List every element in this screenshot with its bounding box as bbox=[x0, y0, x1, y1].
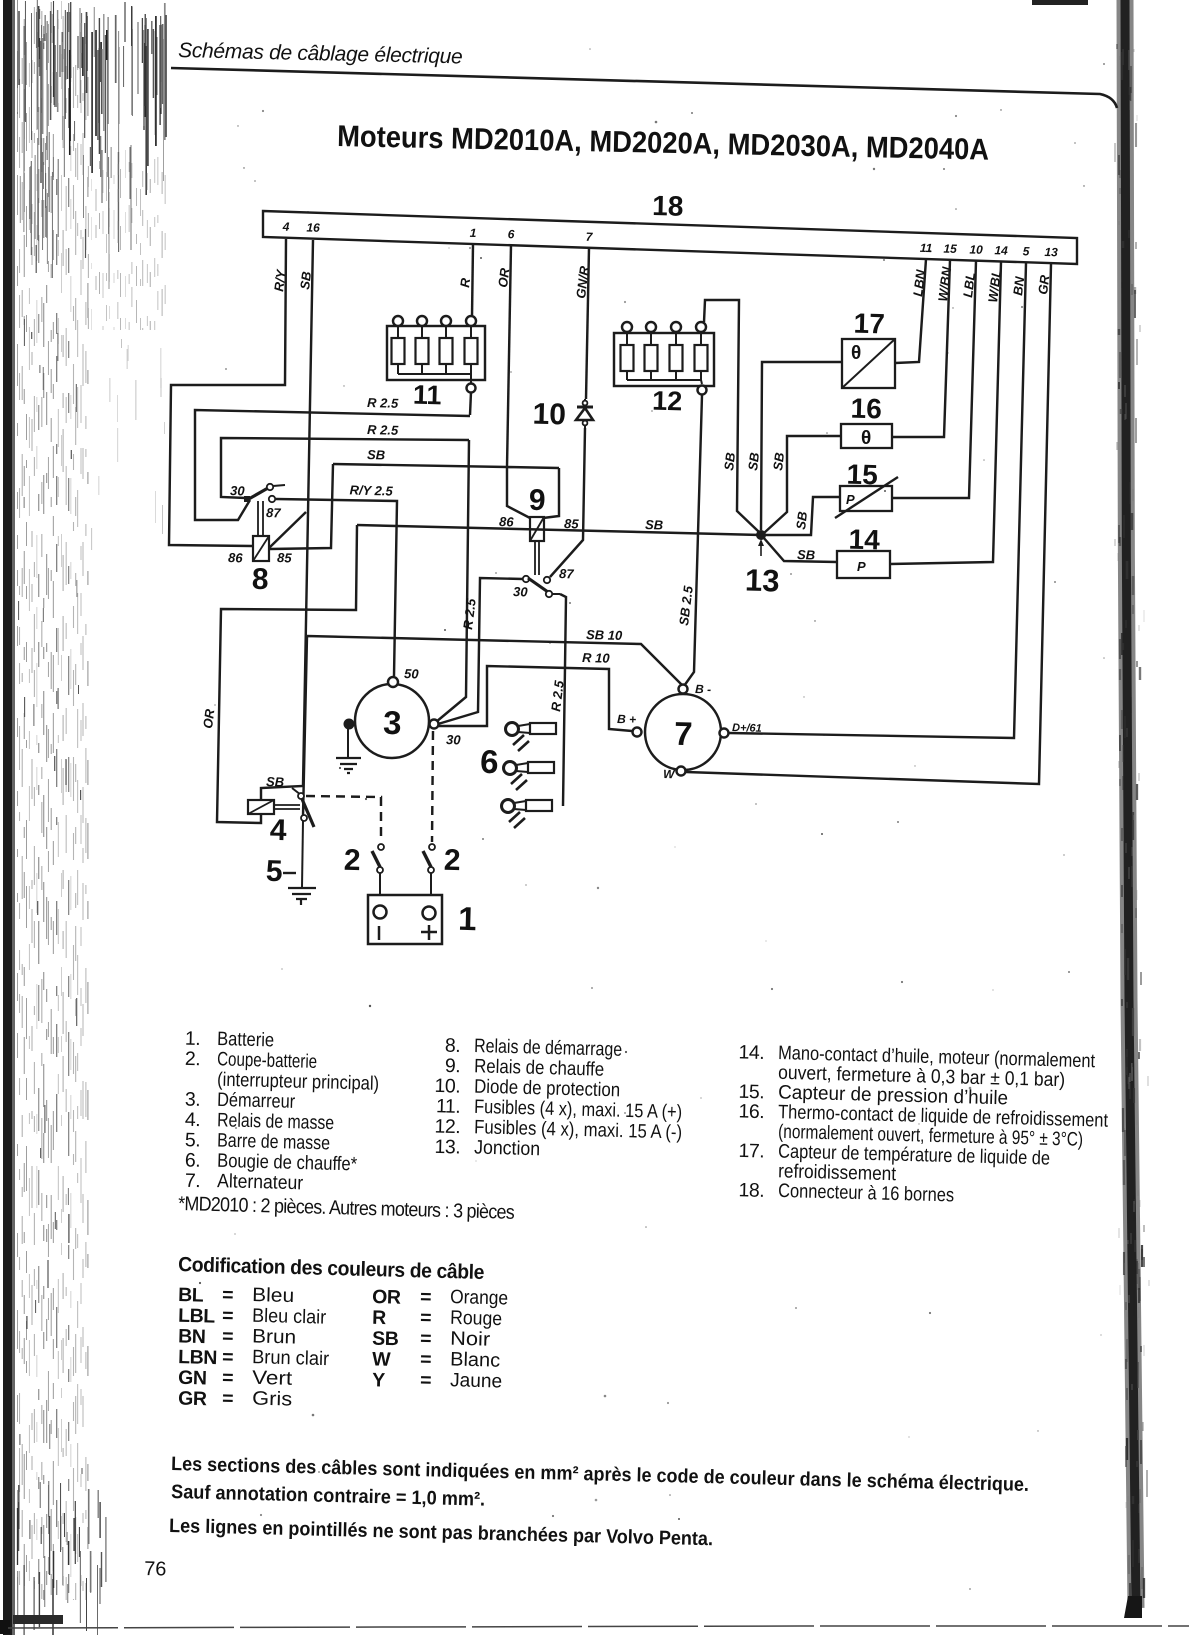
svg-text:Orange: Orange bbox=[450, 1286, 509, 1310]
svg-text:6: 6 bbox=[508, 227, 515, 241]
svg-text:R 10: R 10 bbox=[582, 650, 611, 666]
svg-text:=: = bbox=[222, 1346, 234, 1368]
svg-text:9.: 9. bbox=[445, 1055, 461, 1077]
svg-text:14: 14 bbox=[848, 524, 880, 556]
svg-text:14: 14 bbox=[994, 243, 1008, 257]
svg-text:SB: SB bbox=[367, 447, 385, 462]
svg-text:LBN: LBN bbox=[178, 1346, 217, 1369]
svg-text:12: 12 bbox=[652, 386, 683, 417]
svg-text:Rouge: Rouge bbox=[450, 1307, 503, 1330]
svg-text:11: 11 bbox=[413, 380, 442, 411]
svg-text:17: 17 bbox=[853, 308, 885, 340]
svg-text:86: 86 bbox=[499, 514, 515, 529]
start relay 8 bbox=[244, 484, 285, 561]
connector 18 (16-pole) bar bbox=[263, 211, 1077, 264]
junction 13 arrow bbox=[760, 543, 762, 556]
starter motor 3 bbox=[344, 677, 430, 758]
svg-text:θ: θ bbox=[851, 343, 861, 364]
ground bar 5 bbox=[288, 888, 316, 905]
svg-text:SB: SB bbox=[797, 547, 815, 562]
svg-text:Bleu: Bleu bbox=[252, 1284, 295, 1307]
page bottom edge line bbox=[8, 1626, 1189, 1628]
svg-text:=: = bbox=[222, 1367, 234, 1389]
svg-text:8: 8 bbox=[251, 563, 269, 596]
svg-text:θ: θ bbox=[861, 428, 871, 449]
svg-text:W: W bbox=[663, 767, 676, 781]
protection diode 10 bbox=[576, 399, 593, 428]
svg-text:16: 16 bbox=[850, 393, 882, 425]
wire R/Y pin4 to relay 8 coil 86 bbox=[169, 239, 286, 546]
svg-text:4: 4 bbox=[282, 220, 290, 234]
fuse block 12 (4x fuses, -) bbox=[614, 322, 714, 395]
svg-text:W: W bbox=[372, 1348, 392, 1370]
svg-text:1: 1 bbox=[458, 900, 477, 937]
wire fuse 11 output drop bbox=[470, 392, 471, 415]
svg-text:B +: B + bbox=[617, 712, 636, 726]
wire relay 8 85 diagonal bbox=[269, 512, 306, 548]
svg-text:B -: B - bbox=[695, 682, 711, 696]
dashed wire starter 30 to main switch bbox=[432, 731, 433, 842]
svg-text:=: = bbox=[222, 1388, 234, 1410]
svg-text:=: = bbox=[420, 1286, 432, 1308]
svg-text:R: R bbox=[372, 1307, 387, 1329]
wire relay 9 to glow plugs R2.5 bbox=[560, 594, 566, 806]
svg-text:SB: SB bbox=[770, 452, 787, 472]
svg-text:1: 1 bbox=[470, 226, 477, 240]
dashed wire relay 4 to main switch bbox=[306, 796, 381, 842]
svg-text:R/Y 2.5: R/Y 2.5 bbox=[349, 482, 393, 498]
svg-text:15: 15 bbox=[846, 459, 878, 491]
header rule bbox=[171, 68, 1117, 108]
wire BN pin5 to alternator D+/61 bbox=[729, 263, 1026, 738]
wire starter 30 to R10 to alternator B+ bbox=[438, 666, 632, 731]
svg-text:7: 7 bbox=[674, 715, 693, 752]
svg-text:30: 30 bbox=[230, 483, 246, 498]
svg-text:2: 2 bbox=[443, 844, 461, 877]
svg-text:30: 30 bbox=[446, 732, 462, 747]
svg-text:Y: Y bbox=[372, 1369, 386, 1391]
svg-text:3: 3 bbox=[383, 704, 402, 741]
wire LBL pin10 to sensor 15 bbox=[892, 261, 976, 498]
right page-edge scan band bbox=[1115, 0, 1149, 1618]
svg-text:Vert: Vert bbox=[252, 1367, 293, 1390]
left page-binding scan band bbox=[0, 0, 166, 1635]
svg-text:SB: SB bbox=[645, 517, 663, 532]
svg-text:Jaune: Jaune bbox=[450, 1369, 503, 1392]
wire SB relay 8 85 riser bbox=[270, 464, 333, 549]
wire SB bus through relay 9 to junction 13 bbox=[357, 525, 761, 535]
wire R pin1 to fuse block 11 bbox=[472, 244, 473, 317]
junction 13 node bbox=[756, 530, 766, 540]
svg-text:4: 4 bbox=[269, 814, 287, 847]
glow plug 6.1 bbox=[506, 723, 557, 752]
svg-text:13: 13 bbox=[1044, 245, 1058, 259]
svg-text:7.: 7. bbox=[185, 1170, 201, 1192]
svg-text:8.: 8. bbox=[445, 1035, 461, 1057]
svg-text:6.: 6. bbox=[185, 1149, 201, 1171]
svg-text:13.: 13. bbox=[434, 1136, 460, 1159]
svg-text:GN: GN bbox=[178, 1367, 207, 1390]
svg-text:10: 10 bbox=[969, 242, 983, 256]
svg-text:=: = bbox=[420, 1328, 432, 1350]
svg-text:BL: BL bbox=[178, 1284, 204, 1307]
label 5 dash bbox=[283, 872, 296, 874]
svg-text:1.: 1. bbox=[185, 1028, 201, 1050]
svg-text:R 2.5: R 2.5 bbox=[367, 395, 399, 411]
glow plug 6.2 bbox=[504, 762, 555, 791]
svg-text:2: 2 bbox=[343, 844, 361, 877]
wire fuse 12 top to junction 13 bbox=[704, 300, 759, 532]
wire R 2.5 relay 8 arm to starter 30 bbox=[221, 438, 469, 722]
starter ground bbox=[336, 729, 361, 773]
svg-text:9: 9 bbox=[528, 484, 546, 517]
wire sensor 16 to junction 13 bbox=[764, 436, 841, 533]
svg-text:5: 5 bbox=[265, 855, 283, 888]
svg-text:5: 5 bbox=[1023, 244, 1030, 258]
svg-text:3.: 3. bbox=[185, 1089, 201, 1111]
wire relay 4 to ground bar bbox=[302, 821, 303, 887]
svg-text:86: 86 bbox=[228, 550, 244, 565]
svg-text:Connecteur à 16 bornes: Connecteur à 16 bornes bbox=[778, 1180, 955, 1207]
wire W/BL pin14 to sensor 14 bbox=[890, 262, 1001, 564]
svg-text:87: 87 bbox=[559, 566, 575, 581]
svg-text:16.: 16. bbox=[738, 1100, 764, 1123]
svg-text:SB: SB bbox=[745, 452, 762, 472]
svg-text:17.: 17. bbox=[738, 1140, 764, 1163]
coolant temperature sensor 17 bbox=[842, 339, 895, 388]
wire relay 9 30 to starter 30 bbox=[438, 578, 523, 724]
wire GR pin13 to alternator W bbox=[686, 264, 1051, 784]
wire sensor 15 to junction 13 bbox=[761, 497, 840, 535]
svg-text:Alternateur: Alternateur bbox=[217, 1170, 304, 1194]
svg-text:Brun: Brun bbox=[252, 1325, 297, 1348]
wire SB bus to mass relay 4 coil bbox=[217, 525, 357, 823]
svg-text:10: 10 bbox=[532, 398, 566, 432]
svg-text:18.: 18. bbox=[738, 1179, 764, 1202]
svg-text:SB 10: SB 10 bbox=[586, 627, 623, 643]
svg-text:GR: GR bbox=[178, 1388, 207, 1411]
svg-text:6: 6 bbox=[480, 743, 499, 780]
svg-text:11: 11 bbox=[920, 241, 933, 255]
starter terminal 30 bbox=[430, 720, 439, 729]
svg-text:R 2.5: R 2.5 bbox=[367, 422, 399, 438]
coolant thermo-contact 16 bbox=[841, 424, 892, 449]
svg-text:5.: 5. bbox=[185, 1129, 201, 1151]
glow plug 6.3 bbox=[502, 800, 553, 829]
svg-text:=: = bbox=[222, 1305, 234, 1327]
svg-text:11.: 11. bbox=[436, 1095, 461, 1118]
svg-text:SB: SB bbox=[721, 452, 738, 472]
relay 9 switch bbox=[523, 576, 560, 597]
svg-text:87: 87 bbox=[266, 505, 282, 520]
svg-text:Noir: Noir bbox=[450, 1328, 491, 1351]
wire SB branch to relay 4 pivot bbox=[292, 788, 301, 795]
svg-text:13: 13 bbox=[745, 563, 780, 599]
svg-text:D+/61: D+/61 bbox=[732, 722, 762, 735]
svg-text:SB: SB bbox=[266, 774, 284, 789]
svg-text:10.: 10. bbox=[434, 1075, 460, 1098]
wire diode 10 to relay 9 contact 87 bbox=[550, 428, 585, 577]
svg-text:OR: OR bbox=[372, 1286, 401, 1309]
battery 1 bbox=[368, 895, 442, 944]
svg-text:Blanc: Blanc bbox=[450, 1348, 501, 1371]
oil pressure mano-contact 14 bbox=[837, 551, 890, 578]
wire SB 2.5 fuse 12 to alternator B- bbox=[684, 395, 702, 686]
svg-text:LBL: LBL bbox=[178, 1305, 216, 1328]
main switch 2 (right) bbox=[423, 844, 435, 894]
svg-text:P: P bbox=[857, 559, 866, 574]
alternator 7 bbox=[633, 685, 729, 776]
oil pressure sensor 15 bbox=[835, 477, 898, 518]
svg-text:16: 16 bbox=[306, 220, 320, 234]
wire SB10 mass bus bbox=[303, 636, 682, 816]
svg-text:SB: SB bbox=[793, 511, 810, 531]
svg-text:76: 76 bbox=[144, 1558, 167, 1581]
svg-text:=: = bbox=[420, 1348, 432, 1370]
svg-text:15: 15 bbox=[943, 242, 957, 256]
wire OR pin6 to heater relay 9 bbox=[507, 245, 511, 467]
wire R/Y 2.5 relay 8 87 to starter 50 bbox=[276, 499, 397, 676]
svg-text:18: 18 bbox=[652, 190, 684, 222]
svg-text:2.: 2. bbox=[185, 1048, 201, 1070]
svg-text:30: 30 bbox=[513, 584, 529, 599]
wire W/BN pin15 to sensor 16 bbox=[892, 260, 950, 437]
wire GN/R pin7 to diode 10 bbox=[586, 248, 589, 399]
svg-text:OR: OR bbox=[200, 708, 217, 730]
svg-text:=: = bbox=[420, 1307, 432, 1329]
svg-text:BN: BN bbox=[178, 1325, 206, 1348]
main switch 2 (left) bbox=[372, 844, 384, 894]
svg-text:Gris: Gris bbox=[252, 1388, 293, 1411]
wire LBN pin11 to sensor 17 bbox=[895, 259, 926, 363]
svg-text:=: = bbox=[420, 1369, 432, 1391]
svg-text:Jonction: Jonction bbox=[474, 1137, 541, 1161]
wire SB pin16 to mass relay 4 bbox=[261, 240, 313, 800]
wire sensor 14 to junction 13 bbox=[763, 537, 837, 562]
svg-text:85: 85 bbox=[277, 550, 293, 565]
svg-text:SB: SB bbox=[372, 1328, 399, 1351]
wire R 2.5 fuse 11 to relay 8 contact 30 bbox=[195, 410, 470, 520]
svg-text:=: = bbox=[222, 1325, 234, 1347]
svg-text:12.: 12. bbox=[434, 1116, 460, 1139]
svg-text:4.: 4. bbox=[185, 1109, 201, 1131]
mass relay 4 bbox=[248, 793, 314, 827]
wire SB to relay 9 top bbox=[333, 464, 507, 467]
wire relay 9 funnel bbox=[507, 467, 559, 518]
wire sensor 17 to junction 13 bbox=[761, 362, 842, 530]
fuse block 11 (4x fuses, +) bbox=[387, 316, 485, 393]
svg-text:=: = bbox=[222, 1284, 234, 1306]
heater relay 9 bbox=[530, 517, 544, 575]
svg-text:50: 50 bbox=[404, 666, 420, 681]
svg-text:14.: 14. bbox=[738, 1041, 764, 1064]
